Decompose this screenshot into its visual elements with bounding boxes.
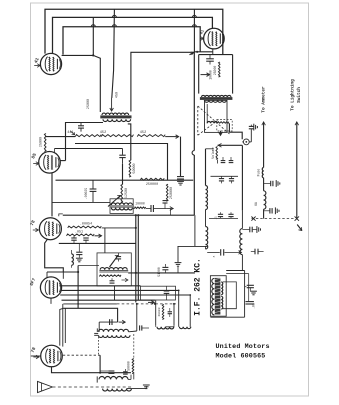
svg-text:10000: 10000 [135,202,145,206]
capacitor .0045 to AVC [90,180,97,202]
capacitor pot b2 [229,157,234,163]
svg-text:To Ammeter: To Ammeter [262,86,267,113]
inductor small choke [72,250,74,268]
svg-text:25000: 25000 [87,99,91,109]
wire IF bottom lead [210,316,244,318]
vibrator coil [207,121,217,123]
wire y272 line [47,271,78,273]
capacitor spark b [264,207,279,214]
wire bundle y285.8 [59,285,140,287]
wire coil column top [205,149,207,186]
wire U1 right [173,304,175,325]
wire IF can loop [223,282,237,309]
tube V1 41 [40,53,61,74]
capacitor V4 b [83,238,88,243]
label 441 [67,131,73,135]
wire V4 grid top [52,201,110,203]
svg-text:I.F. 262 KC.: I.F. 262 KC. [193,258,202,316]
trimmer arrow IF2 [110,255,119,267]
resistor R 452b [137,135,165,137]
capacitor row2 a [218,212,223,218]
wire after resistors with arrow [165,135,178,139]
arrow V3 grid [33,162,39,166]
wire vibrator lead [229,123,242,139]
resistor R 452a [101,135,133,137]
label 25000 [39,137,43,147]
svg-text:452: 452 [100,131,106,135]
resistor AVC r2 [67,234,95,236]
wire IF can top leads [226,271,249,274]
wire U2 right [189,295,191,327]
svg-text:250000: 250000 [170,187,174,199]
capacitor tone [164,286,170,300]
wire cap row under V4 [59,242,136,244]
label 452a [100,131,106,135]
transformer T6 secondary winding [204,100,226,102]
capacitor row2 b [228,212,233,218]
resistor 50000 vertical [129,160,131,177]
wire T5 secondary right lead [128,124,131,160]
tube V5 6F7 [40,277,61,298]
svg-text:50000: 50000 [126,361,130,371]
svg-text:450: 450 [116,92,120,98]
wire x100 vertical [99,355,101,373]
label fuse [256,169,260,177]
wire V3 cathode down [51,173,53,216]
capacitor V4 a [71,236,76,244]
label choke [254,202,258,206]
label 12500 [125,188,129,198]
wire lamp leads [242,141,251,143]
wire V6 grid risers [60,304,66,347]
capacitor osc a [100,371,114,373]
wire hop on bus3 at x93 [91,25,95,27]
wire choke to switch line [263,209,265,218]
IF can right winding upper [221,282,223,295]
wire T3 right junction [129,330,137,333]
capacitor pot b1 [221,157,226,163]
label 450 on x114 wire [116,92,120,98]
resistor volume pot [216,147,218,160]
arrow T3 trim [119,320,126,324]
ground cathode [76,258,83,262]
arrow in box [201,73,210,77]
arrow junction at 194,52 [190,52,195,55]
arrow AVC r2 end [95,234,102,238]
wire T5 stub to tube 85 [60,160,65,162]
node y290 x178 [178,290,180,292]
capacitor IF a [245,285,254,291]
wire T5 secondary left lead [66,123,104,161]
wire y51.8 junction line [194,51,212,53]
capacitor osc b [123,369,128,374]
resistor R 441 [75,135,101,137]
capacitor IF2 lower [110,278,115,283]
capacitor row3 series [221,249,224,255]
IF2 core lines [99,271,128,272]
label volume [211,147,215,159]
ground below decoupling cap [177,181,184,185]
wire vertical x93 bus2 to node [92,17,94,55]
node y295 x190 [189,294,191,296]
node gang c [173,303,175,305]
wire hop on bus2 over vertical [112,15,196,17]
wire x178 drop [177,246,179,262]
capacitor right r1 [242,226,260,233]
wire V5 top leads [47,272,63,279]
label .00025 [84,188,88,200]
label V4 78 [29,219,37,227]
IF2 can box [97,253,131,286]
node junction at 93,55 [92,54,94,56]
switch X mark left [251,217,255,221]
resistor padding [162,304,164,319]
wire V6 grid cap dashed [63,354,100,356]
IF1 core lines [111,206,133,207]
wire arrow drop [170,209,172,216]
ground buffer cap [254,124,258,131]
wire T4 right [128,375,131,380]
capacitor row1 b [229,176,234,183]
wire y148 line [55,148,123,150]
svg-text:25000: 25000 [213,66,217,76]
ground on AVC line [175,263,182,273]
label V6 78 [30,346,38,354]
wire x122 down segment [122,164,124,185]
arrow IF1 out [166,207,173,211]
T4 winding lower [103,389,132,391]
label 452b [140,131,146,135]
label Model 600565 [216,352,266,360]
wire T3 trim left vertical [98,322,100,332]
fuse [262,167,263,178]
wire ammeter vertical [263,129,265,168]
arrow V1 grid [34,64,40,68]
wire V4 cathode [45,239,64,272]
inductor RF coil lower [206,227,208,250]
IF2 winding lower zigzag [99,275,121,277]
wire cap row1 [211,175,239,177]
vibrator dashed box [217,120,232,131]
wire osc r bottom [133,374,135,380]
IF1 winding lower [111,208,132,210]
tube V6 78 [41,345,63,367]
switch X mark [295,216,299,220]
IF2 winding upper [100,268,127,270]
wire lamp down rail [241,145,243,210]
label 250000 [146,183,158,187]
svg-text:441: 441 [67,131,73,135]
label I.F. 262 KC. [193,258,202,316]
wire gang solid part [63,303,117,305]
wire V4 screen lead [59,214,63,216]
wire cap to arrow [154,208,167,210]
IF1 can box [110,199,133,214]
wire V6 cathode [52,367,132,374]
label osc grid r [126,361,130,371]
node dv y227 [135,227,137,229]
arrow V4 grid [33,228,39,232]
wire IF2 left lead [78,265,99,267]
arrow below switch [297,225,302,231]
wire box right edge [194,215,196,246]
wire IF1 out [133,208,134,210]
lamp pilot [243,139,249,145]
border frame (scan edge) [31,3,309,396]
vibrator dashed outline [198,106,230,135]
capacitor cathode bypass [76,243,82,257]
svg-text:452: 452 [140,131,146,135]
resistor 12500 vertical [121,184,123,202]
wire V2 cathode stub [212,49,214,55]
ground T4 [143,385,150,389]
inductor tuning coil [240,229,243,255]
node bundle x78 [77,299,79,304]
transformer T5 secondary winding [103,119,131,121]
wire drop to decoupling cap [180,137,182,177]
label V5 6F7 [29,277,37,287]
capacitor right r2 [251,249,264,255]
vibrator resistor [218,122,229,124]
wire x122 to AVC line [122,201,124,203]
arrow vibrator ground [219,131,223,136]
label 250000b [170,187,174,199]
wire between coils [205,210,207,227]
wire vibrator coil feed [206,104,208,123]
capacitor shunt up [163,201,168,209]
svg-text:12500: 12500 [125,188,129,198]
wire V1 plate lead [62,54,94,56]
label box resistor [213,66,217,76]
wire y180 line [56,179,194,181]
wire long y215 line [63,214,195,216]
capacitor spark a [264,180,280,187]
label 10000 [135,202,145,206]
wire arrow line to volume [218,144,243,148]
svg-text:United Motors: United Motors [216,343,270,351]
wire T4 bottom out [127,388,147,390]
arrow into R441 [70,131,74,135]
label 51000 [157,267,161,277]
wire IF right vertical [244,271,246,318]
T3 winding upper [99,329,129,332]
wire resistor row feed [45,136,75,138]
transformer T5 primary winding [102,113,129,115]
capacitor series IF1 [151,205,153,212]
ground IF a [250,291,257,295]
capacitor decoupling plates [177,177,184,179]
label 50000 [133,163,137,173]
node x78 y272 [77,271,79,273]
inductor RF coil upper [206,186,208,210]
wire hop on x194 vertical [192,151,194,155]
node gang a [136,303,138,305]
capacitor T3 out [140,325,149,330]
capacitor U1 inner [168,308,172,317]
arrow lightning [295,122,299,129]
capacitor coupling at 122 [119,149,125,164]
wire vertical x131 with top elbow [131,52,195,111]
wire T3 trim line [99,321,117,323]
label V1 41 [33,57,41,65]
wire double vertical b [137,215,139,300]
svg-text:.00025: .00025 [84,188,88,200]
wire bundle y308.3 [63,308,117,322]
wire double vertical a [135,215,137,302]
IF1 winding upper [111,203,132,205]
svg-text:.05: .05 [252,303,256,309]
IF can box [210,276,226,317]
wire lamp riser [250,129,252,142]
svg-text:Switch: Switch [297,87,302,103]
wire V3 top right lead [54,149,56,153]
svg-text:.00054: .00054 [80,222,92,226]
wire coil bottom [205,246,207,249]
IF can core [215,278,222,315]
wire AVC r1 tail [102,227,136,229]
label padding [158,307,161,316]
label row3 [213,255,216,257]
IF can left winding [212,278,215,314]
label V2 41 [200,29,206,35]
wire rail to IF can [241,255,243,271]
node dv y272 [135,272,137,274]
capacitor on T5 lead [78,123,84,132]
wire IF1 to cap [146,208,151,210]
wire dashed riser [98,337,100,355]
svg-text:25000: 25000 [39,137,43,147]
wire long vertical x194 down to IF box [193,52,195,216]
inductor ammeter choke [264,191,266,209]
transformer T5 core [100,115,131,118]
arrow V6 grid [33,355,39,359]
resistor IF1 out [134,207,145,209]
wire hop on bus3 at x114 [112,25,196,27]
label AVC r2 [75,230,83,234]
T3 end ticks [94,328,98,335]
wire x136.8 vertical [136,304,138,331]
antenna [38,381,53,392]
capacitor 51000 [162,264,168,273]
inductor U1 coil [157,327,174,329]
wire bundle y290.4 [61,289,179,291]
T3 winding lower [99,335,131,337]
transformer T6 core hatch [200,97,233,100]
wire vertical x194 from bus1 [193,9,195,52]
wire y143.5 line [75,144,168,181]
arrow IF2 lower trim [122,278,129,282]
resistor 250000 on y180 [140,178,164,180]
label IF b [252,303,256,309]
svg-text:.1: .1 [215,216,218,220]
arrow into transformer top [110,98,114,111]
wire bus2 [53,17,213,53]
tube V2 41 [204,28,225,49]
svg-text:To Lightning: To Lightning [291,79,296,111]
wire U1 bottoms [156,325,174,327]
T4 end tick [96,376,98,382]
svg-text:250000: 250000 [146,183,158,187]
wire lightning vertical [296,129,298,219]
label V3 85 [30,152,38,160]
wire x104.9 drop to IF2 [104,228,106,253]
resistor osc grid [132,359,134,374]
wire y272.9 AVC line [128,272,195,274]
svg-text:Fuse: Fuse [256,169,260,177]
svg-text:.051: .051 [75,230,83,234]
capacitor in box [206,55,214,65]
wire from node down to output transformer [93,55,100,112]
arrow tone control [108,195,121,206]
wire V5 bottom lead [50,298,52,304]
wire gang dashed line [117,303,176,305]
vibrator box [205,100,228,132]
wire x78 long vertical [77,266,79,309]
wire bundle y300.2 [62,299,155,301]
wire U1 left [155,300,157,325]
wire antenna dashed [53,386,132,388]
wire dashed battery line [252,218,295,220]
arrow to ammeter [262,122,266,129]
label United Motors [216,343,270,351]
wire pot bottom [217,160,219,164]
capacitor T3 trim [110,319,112,325]
wire cap row3 [207,251,220,253]
resistor 250000b vertical [166,184,168,201]
rectifier box [199,55,233,94]
svg-text:6A: 6A [254,202,258,206]
resistor in box vertical [219,62,221,77]
svg-text:Model 600565: Model 600565 [216,352,266,360]
wire y356 stub at border [31,355,41,357]
label 25000 plate [87,99,91,109]
resistor AVC r1 [68,226,102,228]
wire bus1 (B+ top rail) [45,9,223,54]
resistor 25000 grid leak [44,134,46,152]
node dv y215 [135,214,140,216]
tone box [141,286,176,300]
inductor U2 coil [179,327,190,329]
label cap row2 [215,216,218,220]
wire fuse to choke [263,178,265,191]
capacitor IF2 top [116,253,121,262]
label To Lightning Switch [291,79,302,111]
IF can right winding lower [221,296,223,309]
label AVC r1 [80,222,92,226]
wire cap row2 [209,217,238,219]
arrow V2 grid [200,37,203,41]
label box resistor2 [208,70,212,80]
wire vertical x114 bus1 to transformer [112,9,115,98]
arrow row3 to rail [225,251,242,255]
node gang b [154,303,156,305]
wire rail upper [241,210,243,228]
tube V4 78 [39,218,61,240]
wire U2 left [178,290,180,326]
wire volume to coil [206,148,214,150]
tube V3 85 [39,152,61,174]
capacitor buffer [249,125,254,129]
arrow into U1 [148,301,154,305]
transformer T6 primary winding [201,95,231,96]
wire y246 line [178,245,208,247]
wire osc r top [133,334,135,359]
T4 winding upper [99,377,128,380]
svg-text:20000: 20000 [158,307,161,316]
wire bus3 [63,27,200,55]
label To Ammeter [262,86,267,113]
svg-text:50000: 50000 [133,163,137,173]
